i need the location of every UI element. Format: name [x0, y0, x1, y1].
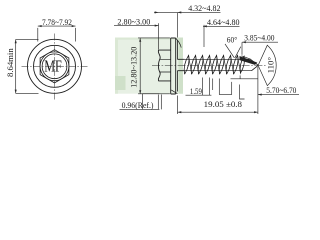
svg-text:3.85~4.00: 3.85~4.00	[244, 32, 275, 42]
svg-text:2.80~3.00: 2.80~3.00	[117, 16, 150, 26]
threads (coil loops)	[184, 55, 244, 74]
dimension 8.64min (left of left view)	[15, 39, 39, 93]
dim 2.80~3.00	[114, 23, 159, 49]
svg-text:8.64min: 8.64min	[5, 48, 15, 77]
screw axis centerline	[152, 64, 267, 66]
60 degree callout	[225, 44, 241, 58]
jogged extension brackets	[213, 75, 258, 99]
dim 5.70~6.70	[258, 94, 299, 96]
serration diagonals	[171, 90, 177, 94]
hex facet lines	[159, 59, 170, 72]
dim 19.05 ±0.8	[178, 67, 258, 114]
hex chamfer circle	[40, 52, 69, 81]
svg-text:110°: 110°	[266, 57, 276, 74]
hex top/bottom edges	[158, 50, 170, 81]
110 degree point-angle fan	[258, 45, 276, 85]
svg-text:4.32~4.82: 4.32~4.82	[188, 3, 220, 13]
svg-text:1.59: 1.59	[190, 86, 202, 96]
serration line (right bearing face)	[176, 41, 178, 92]
under-head shank	[177, 59, 184, 70]
washer inner circle	[34, 45, 76, 87]
svg-text:4.64~4.80: 4.64~4.80	[207, 17, 240, 27]
hex silhouette left edge	[158, 50, 160, 81]
svg-text:12.80~13.20: 12.80~13.20	[129, 46, 139, 88]
svg-text:7.78~7.92: 7.78~7.92	[42, 17, 72, 27]
dim 1.59	[186, 78, 212, 96]
dim 12.80~13.20	[138, 38, 170, 94]
flute wedge	[240, 56, 258, 65]
dim 4.32~4.82	[154, 11, 221, 37]
centerlines of left view	[22, 34, 88, 102]
washer outer circle	[28, 39, 82, 93]
hexagon (corners top/bottom)	[40, 50, 69, 83]
dim 4.64~4.80	[203, 25, 240, 47]
drill point	[242, 56, 259, 71]
watermark	[115, 38, 183, 94]
svg-text:19.05 ±0.8: 19.05 ±0.8	[204, 99, 243, 109]
svg-text:5.70~6.70: 5.70~6.70	[266, 85, 297, 95]
inner boss circle	[42, 54, 67, 79]
shank root lines	[185, 59, 252, 70]
dim 0.96(Ref.)	[120, 94, 162, 110]
svg-text:60°: 60°	[227, 35, 238, 45]
flange	[171, 38, 176, 94]
dim 3.85~4.00	[242, 41, 278, 55]
svg-text:0.96(Ref.): 0.96(Ref.)	[122, 100, 154, 110]
head outline	[158, 38, 184, 94]
dimension 7.78~7.92 (top of left view)	[38, 25, 76, 41]
